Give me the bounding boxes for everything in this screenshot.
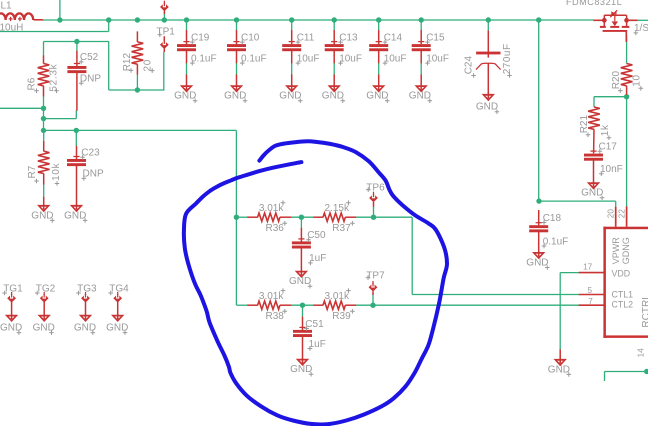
svg-text:2.15k: 2.15k (325, 203, 350, 214)
svg-text:GND: GND (279, 91, 301, 102)
svg-text:CTL1: CTL1 (612, 290, 634, 300)
svg-text:7: 7 (588, 297, 593, 306)
svg-text:R36: R36 (266, 223, 285, 234)
svg-text:GND: GND (548, 364, 570, 375)
svg-text:0.1uF: 0.1uF (191, 53, 217, 64)
svg-text:R38: R38 (266, 311, 285, 322)
svg-text:3.01k: 3.01k (325, 291, 350, 302)
svg-text:0.1uF: 0.1uF (241, 53, 267, 64)
svg-text:GND: GND (366, 91, 388, 102)
svg-text:0.1uF: 0.1uF (543, 236, 569, 247)
svg-text:52.3k: 52.3k (49, 63, 60, 91)
svg-text:R39: R39 (332, 311, 351, 322)
svg-text:TP7: TP7 (366, 270, 385, 281)
svg-text:14: 14 (637, 348, 646, 358)
svg-text:FDMC8321L: FDMC8321L (566, 0, 622, 7)
svg-text:GND: GND (526, 257, 548, 268)
svg-text:GND: GND (64, 210, 86, 221)
svg-text:3.01k: 3.01k (259, 291, 284, 302)
svg-text:CTL2: CTL2 (612, 299, 634, 309)
svg-text:R7: R7 (27, 165, 38, 178)
svg-text:1k: 1k (600, 124, 611, 136)
svg-text:GND: GND (581, 188, 603, 199)
svg-text:GND: GND (476, 102, 498, 113)
svg-text:GND: GND (174, 91, 196, 102)
svg-text:20: 20 (606, 209, 615, 219)
svg-text:10uH: 10uH (0, 23, 23, 34)
svg-text:TP6: TP6 (366, 182, 385, 193)
svg-text:RCTRL: RCTRL (641, 294, 648, 328)
svg-text:R21: R21 (579, 115, 590, 134)
svg-text:22: 22 (617, 209, 626, 219)
svg-text:GND: GND (31, 210, 53, 221)
svg-text:R37: R37 (332, 223, 351, 234)
svg-text:5: 5 (588, 286, 593, 295)
svg-text:10: 10 (632, 74, 643, 87)
svg-text:R20: R20 (611, 71, 622, 90)
svg-text:L1: L1 (1, 0, 13, 11)
svg-text:VDD: VDD (612, 268, 631, 278)
svg-text:GDNG: GDNG (621, 237, 631, 264)
svg-text:GND: GND (290, 364, 312, 375)
svg-text:10k: 10k (51, 162, 62, 181)
svg-text:3.01k: 3.01k (259, 203, 284, 214)
svg-text:C24: C24 (464, 56, 475, 75)
svg-text:17: 17 (583, 263, 593, 272)
svg-text:GND: GND (224, 91, 246, 102)
svg-text:GND: GND (409, 91, 431, 102)
svg-text:VPWR: VPWR (611, 237, 621, 265)
svg-text:270uF: 270uF (502, 43, 513, 74)
svg-text:GND: GND (289, 276, 311, 287)
svg-text:R6: R6 (26, 77, 37, 90)
svg-text:GND: GND (322, 91, 344, 102)
